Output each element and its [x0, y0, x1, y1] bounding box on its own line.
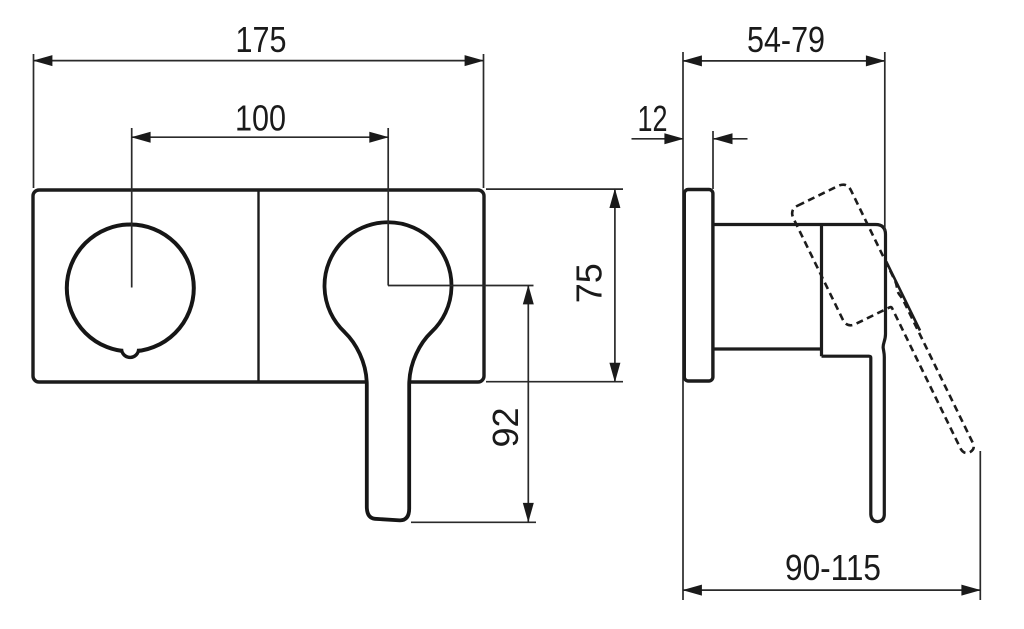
dim 75 extension bottom [486, 381, 623, 383]
dashed lever solid merged segment [886, 262, 920, 331]
dim 54-79 line [683, 60, 885, 62]
svg-text:12: 12 [638, 98, 668, 139]
svg-text:175: 175 [236, 19, 287, 60]
svg-text:54-79: 54-79 [747, 19, 825, 60]
dim 12 right arrow [714, 138, 748, 140]
dim 92 extension bottom [411, 521, 536, 523]
dim 175 line [34, 60, 484, 62]
front view plate [33, 190, 484, 382]
knob indicator notch [122, 349, 139, 358]
dim 90-115 line [683, 589, 980, 591]
dim 175 extension right [483, 54, 485, 188]
plate divider line [257, 190, 259, 382]
dim 12 extension [712, 131, 714, 189]
side view body and lever [713, 225, 886, 522]
dim 75 extension top [486, 188, 623, 190]
dim 100 extension right [387, 128, 389, 286]
dashed lever raised position [789, 182, 977, 477]
side view shared wall extension line [682, 52, 684, 600]
svg-text:75: 75 [569, 263, 610, 303]
dim 92 line [527, 286, 529, 522]
side view wall plate [684, 190, 713, 382]
dim 75 line [614, 189, 616, 382]
dim 54-79 extension right [884, 52, 886, 231]
dim 100 line [132, 136, 389, 138]
lever circle and stem (front view) [325, 222, 452, 520]
svg-text:90-115: 90-115 [785, 547, 881, 588]
left control knob circle [67, 225, 194, 352]
dim 100 extension left [131, 128, 133, 288]
dim 175 extension left [33, 54, 35, 188]
svg-text:92: 92 [485, 407, 526, 447]
svg-text:100: 100 [235, 98, 286, 139]
lever center reference line [388, 285, 534, 287]
dim 12 left arrow [632, 138, 684, 140]
dim 90-115 extension right [979, 451, 981, 600]
